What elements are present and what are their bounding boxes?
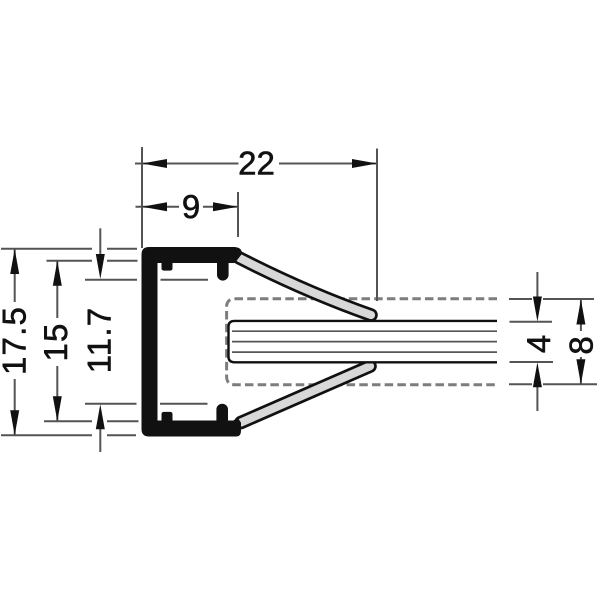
svg-text:17.5: 17.5 xyxy=(0,306,33,375)
svg-text:8: 8 xyxy=(563,336,600,354)
svg-text:4: 4 xyxy=(520,335,557,353)
svg-text:9: 9 xyxy=(182,188,200,225)
svg-text:11.7: 11.7 xyxy=(81,307,118,374)
svg-text:22: 22 xyxy=(238,145,275,182)
svg-text:15: 15 xyxy=(37,322,74,361)
